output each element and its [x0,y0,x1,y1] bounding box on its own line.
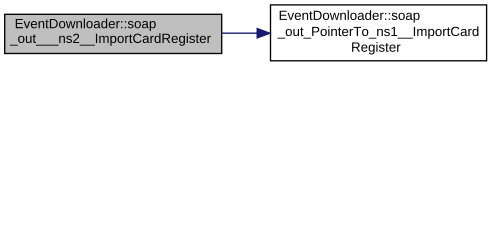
node Node2 label line 1: "EventDownloader::soap" [280,10,420,22]
arrowhead [257,29,270,38]
node Node2 label line 2: "_out_PointerTo_ns1__ImportCard" [278,26,479,38]
edge Node1 -> Node2 (call arrow, midnightblue) [222,32,258,34]
node Node1 label line 1: "EventDownloader::soap" [16,19,156,31]
node Node1 label line 2: "_out___ns2__ImportCardRegister" [10,33,211,45]
node Node1 box: EventDownloader::soap_out___ns2__ImportCardRegister (current node, grey fill) [5,14,222,53]
node Node2 box: EventDownloader::soap_out_PointerTo_ns1__ImportCardRegister (callee, white fill) [271,5,487,61]
doxygen call graph: EventDownloader::soap_out___ns2__ImportCardRegister [0,0,493,67]
node Node2 label line 3: "Register" [352,42,400,54]
